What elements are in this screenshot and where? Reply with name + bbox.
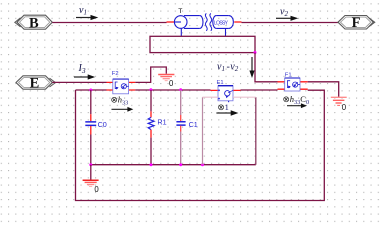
svg-text:B: B [29, 15, 39, 31]
svg-text:0: 0 [94, 185, 99, 194]
sense loop right wire [255, 97, 257, 165]
label v1 with arrow [76, 5, 98, 20]
svg-text:C0: C0 [98, 120, 107, 129]
wire F2 top to ground [135, 67, 166, 82]
label h33C0 under F1 with arrow [283, 94, 310, 108]
wire B to T [52, 22, 166, 24]
wire junction down to F1 [255, 53, 278, 82]
svg-text:⊗1: ⊗1 [218, 102, 229, 112]
port E [16, 76, 56, 92]
junction C1 tap [179, 88, 182, 91]
wire F1 top to ground [308, 82, 339, 97]
VCVS E1 [217, 80, 234, 102]
junction bus-C1 [179, 163, 182, 166]
svg-text:C1: C1 [189, 120, 198, 129]
label I3 with arrow [74, 63, 95, 79]
wire bus to ground 0 [90, 165, 92, 180]
ground 0 near F2 [158, 75, 174, 89]
junction bus-R1 [150, 163, 153, 166]
svg-text:R1: R1 [157, 118, 166, 127]
CCCS F2 [112, 71, 129, 94]
svg-text:0: 0 [342, 103, 347, 112]
svg-text:0: 0 [169, 79, 174, 88]
F2 pin stubs [107, 82, 136, 90]
F1 pin stubs [278, 82, 308, 89]
label v1-v2 with down arrow [217, 57, 255, 78]
ground bus wire [91, 164, 256, 166]
junction R1 tap [149, 88, 152, 91]
transmission line T [167, 8, 242, 36]
sense loop left wire [202, 97, 204, 165]
svg-text:F: F [352, 15, 361, 31]
sense loop top-left wire [203, 96, 219, 98]
ground 0 near F1 [331, 97, 347, 112]
E1 pin stubs [211, 89, 241, 91]
label h33 under F2 with arrow [111, 95, 134, 112]
wire E1 to F1 [241, 89, 278, 91]
junction C0 tap [89, 89, 92, 92]
CCCS F1 [285, 72, 300, 91]
capacitor C1 [176, 90, 197, 165]
junction bus-C0 [89, 163, 92, 166]
svg-text:F2: F2 [112, 71, 119, 77]
junction bus-sense loop [201, 163, 204, 166]
wire loop under T [150, 36, 255, 52]
svg-text:T: T [178, 8, 182, 15]
svg-text:E: E [30, 76, 40, 92]
label 1 under E1 with arrow [216, 102, 238, 116]
wire E to F2 [52, 81, 106, 83]
wire T to F [242, 22, 339, 24]
svg-text:F1: F1 [285, 72, 292, 78]
outer return loop wire [76, 90, 325, 201]
port B [15, 15, 53, 31]
sense loop top-right wire [233, 96, 256, 98]
junction at loop corner [254, 51, 257, 54]
capacitor C0 [85, 90, 107, 165]
resistor R1 [148, 90, 166, 165]
label v2 with arrow [276, 6, 298, 21]
wire F2 to E1 [135, 89, 210, 91]
wire rail y90: outer corner to F2 [76, 89, 107, 91]
port F [338, 15, 375, 31]
svg-text:LOSSY: LOSSY [214, 20, 229, 26]
ground 0 bottom [83, 180, 100, 194]
